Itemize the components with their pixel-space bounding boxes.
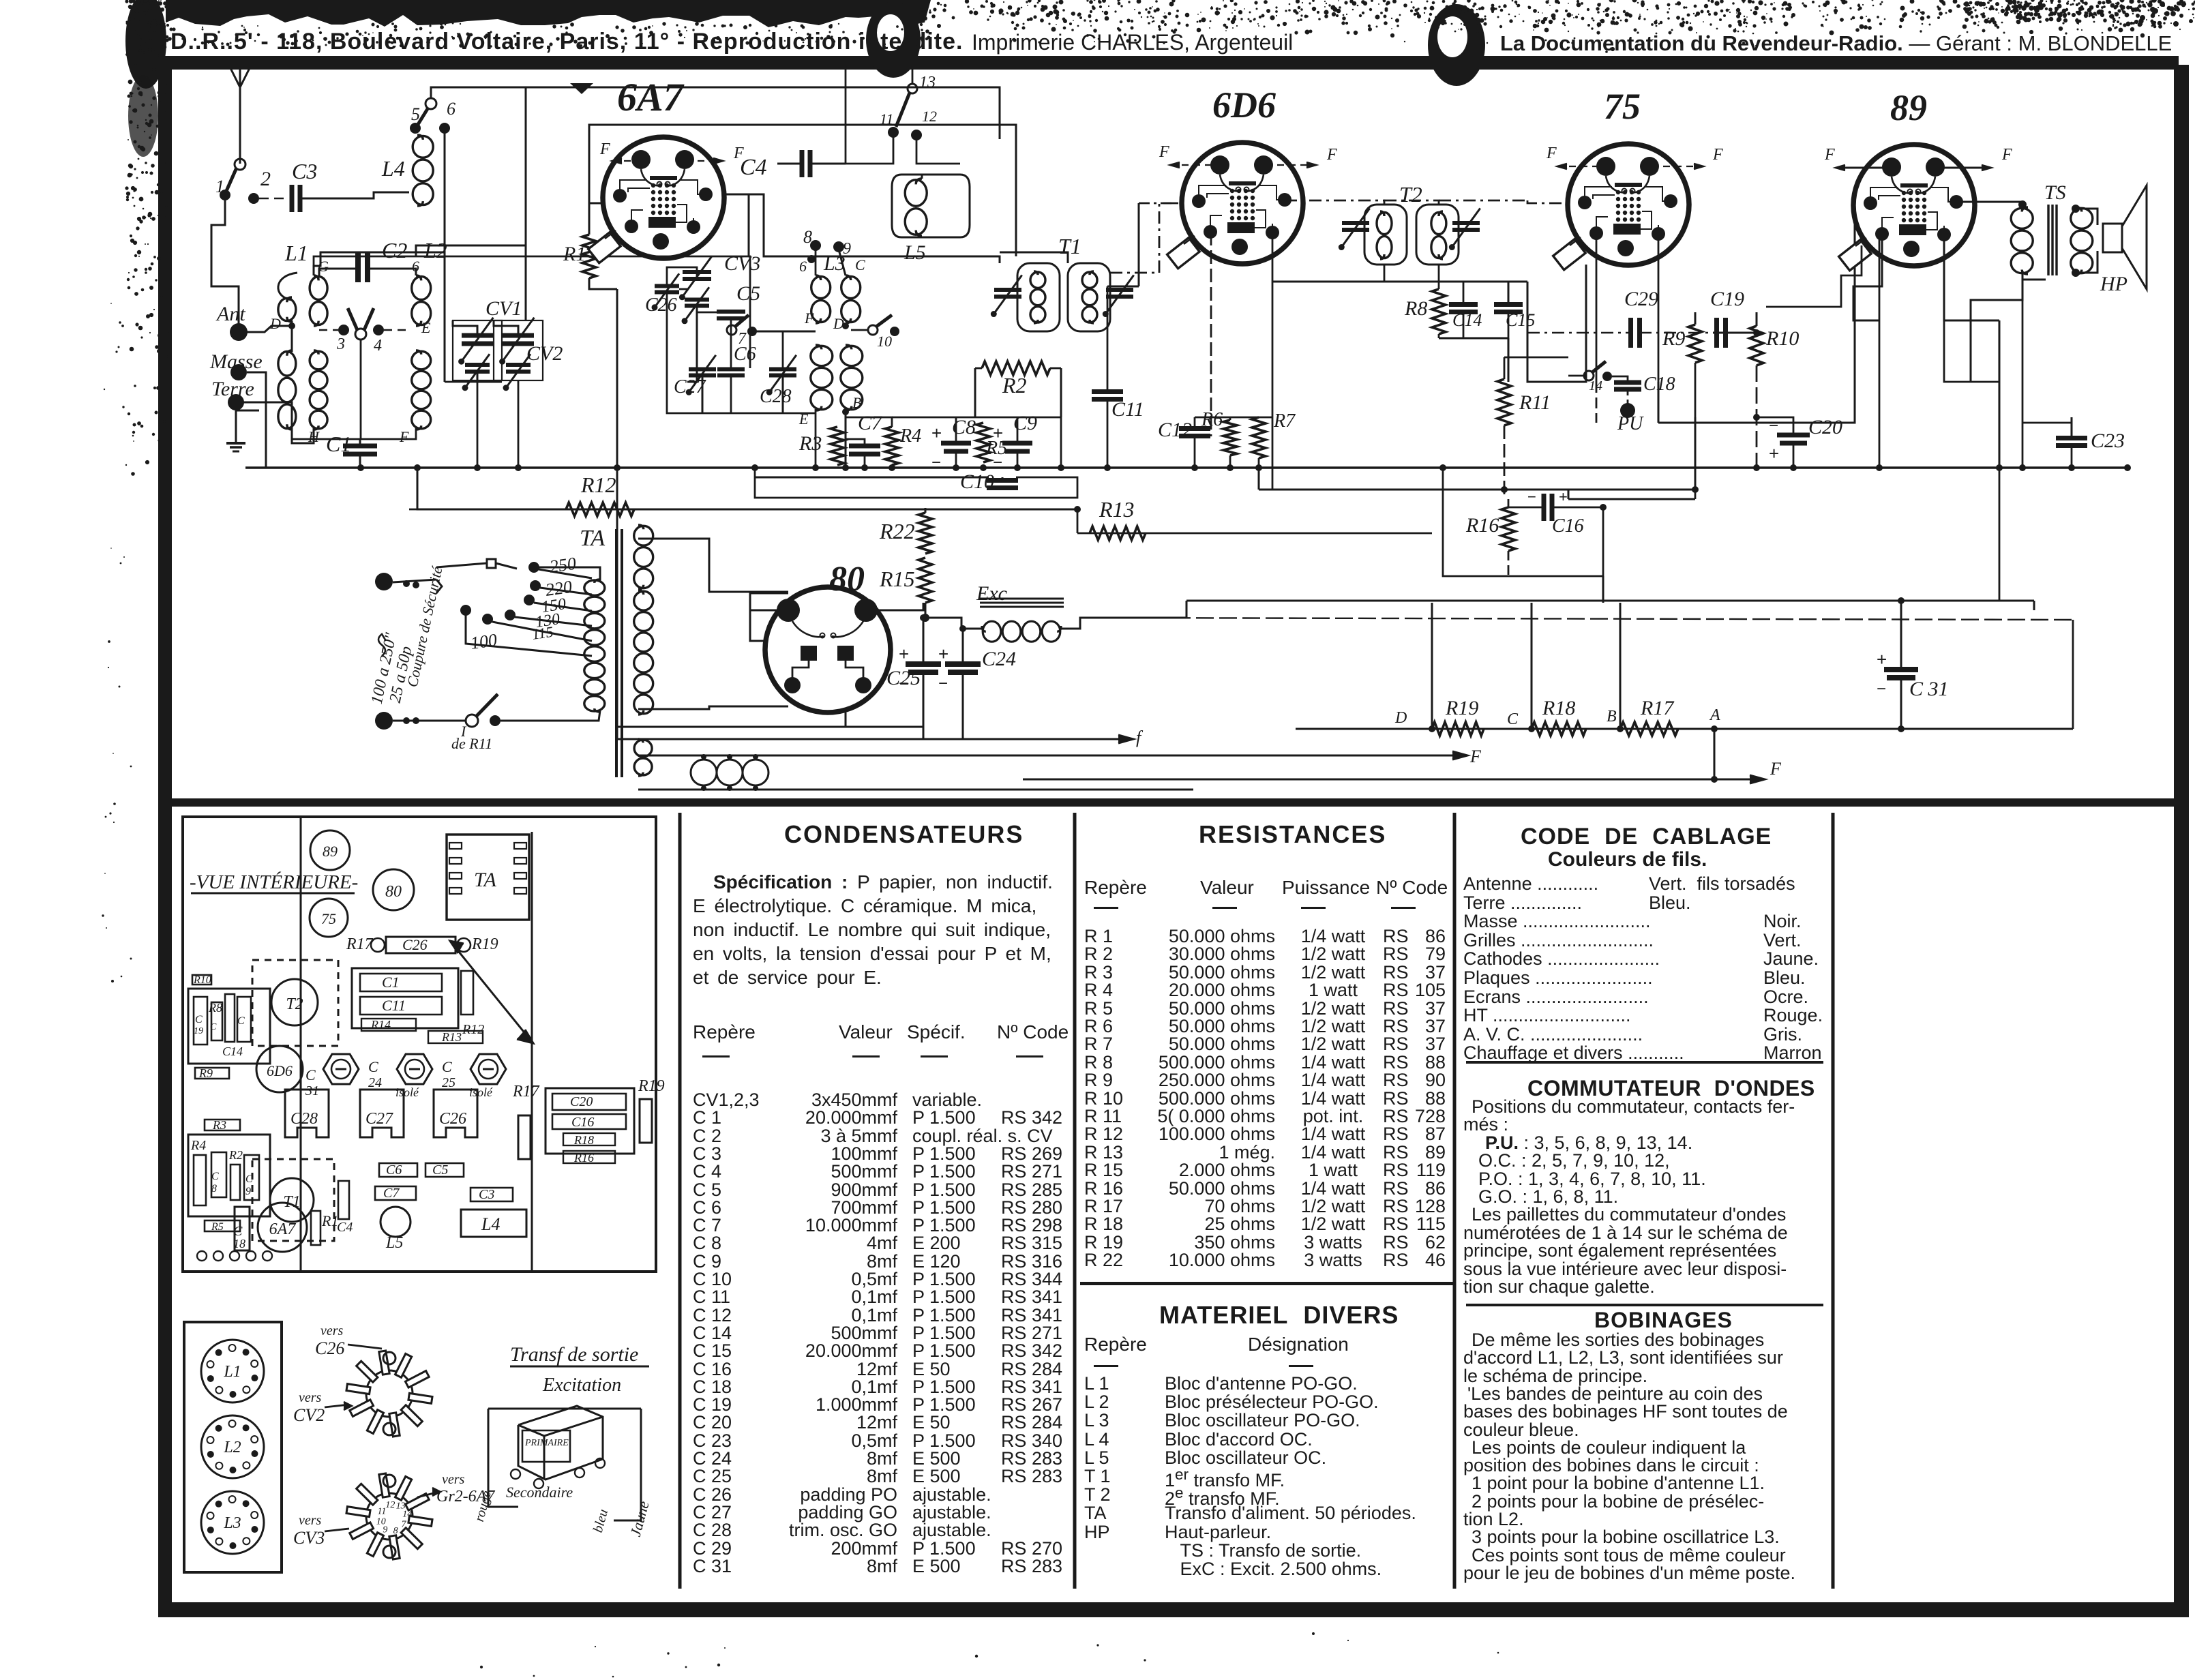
- pins 8-9: [810, 240, 821, 251]
- svg-text:L4: L4: [381, 156, 405, 181]
- svg-text:F: F: [399, 428, 409, 445]
- layout T2 dashed box: [252, 960, 338, 1046]
- transformer T2 primary: [1364, 205, 1407, 265]
- svg-text:R3: R3: [798, 432, 822, 455]
- wire R2 row: [982, 361, 1050, 375]
- svg-text:−: −: [899, 674, 908, 693]
- svg-text:bleu: bleu: [591, 1507, 611, 1534]
- rotary wafer CV2: [366, 1370, 413, 1417]
- antenna: [239, 87, 241, 164]
- tube 6A7: [603, 137, 724, 258]
- svg-text:C26: C26: [439, 1110, 466, 1128]
- svg-text:B: B: [852, 394, 861, 411]
- svg-text:C26: C26: [315, 1338, 344, 1358]
- switch contacts 11-12-13: [908, 84, 917, 93]
- transformer T2 secondary: [1416, 205, 1459, 265]
- wire 80 plates: [750, 593, 788, 641]
- wire terre to coil bottoms: [236, 402, 292, 428]
- svg-text:D: D: [269, 315, 281, 332]
- T1 primary trimmer: [994, 288, 1021, 292]
- svg-text:C20: C20: [570, 1094, 593, 1109]
- R13 wire: [1077, 532, 1432, 535]
- wire 89 grid from 75: [1814, 245, 1862, 307]
- svg-text:C3: C3: [292, 159, 317, 183]
- wire L2 top to CV: [416, 245, 526, 320]
- svg-text:C23: C23: [2091, 430, 2125, 452]
- svg-text:10: 10: [877, 333, 892, 350]
- svg-text:T2: T2: [286, 995, 303, 1013]
- TA bottom winding wires: [638, 755, 1466, 757]
- svg-text:F: F: [1824, 146, 1835, 164]
- table condensateurs: [784, 820, 1024, 849]
- wire 6A7 plate to T1: [724, 194, 1000, 263]
- svg-text:+: +: [931, 423, 942, 443]
- bus junction dots: [357, 464, 364, 471]
- layout bottom dots: [197, 1251, 207, 1261]
- svg-text:F: F: [1159, 143, 1169, 161]
- svg-text:R6: R6: [1201, 409, 1223, 430]
- mains selector contact: [487, 559, 496, 568]
- wire C3 to L4: [300, 192, 409, 198]
- wire 75 plate down: [1658, 235, 1660, 382]
- svg-text:+: +: [1769, 443, 1779, 464]
- tube circle 75: [310, 899, 348, 937]
- svg-text:C6: C6: [734, 344, 756, 365]
- svg-text:C1: C1: [382, 974, 400, 991]
- svg-text:vers: vers: [320, 1323, 344, 1338]
- svg-text:100: 100: [469, 630, 498, 653]
- long wire arrow f: [617, 738, 1132, 740]
- svg-text:R13: R13: [1099, 497, 1135, 522]
- svg-text:R19: R19: [471, 935, 498, 953]
- wire T2 bottom: [1384, 265, 1386, 282]
- svg-text:75: 75: [321, 910, 336, 927]
- svg-text:R18: R18: [573, 1133, 594, 1147]
- chassis layout box: [183, 817, 656, 1272]
- socket L3: [201, 1491, 264, 1554]
- wire 89 plate to TS: [1956, 202, 2022, 209]
- svg-text:R12: R12: [580, 472, 616, 497]
- svg-text:C7: C7: [858, 412, 883, 434]
- svg-text:C: C: [195, 1014, 203, 1025]
- svg-text:C16: C16: [571, 1115, 594, 1130]
- TA primary coil: [584, 580, 605, 595]
- svg-text:C4: C4: [337, 1220, 353, 1235]
- svg-text:R16: R16: [1465, 514, 1499, 537]
- svg-text:+: +: [993, 423, 1003, 443]
- wire L3 bottom to bus: [815, 409, 817, 468]
- svg-text:10: 10: [376, 1517, 386, 1527]
- svg-text:C19: C19: [1710, 288, 1744, 310]
- svg-text:C4: C4: [740, 155, 767, 180]
- wire T2 to 75 grid: [1527, 200, 1568, 203]
- switch contact 10: [868, 325, 878, 335]
- svg-text:R4: R4: [899, 425, 921, 447]
- winding terminals: [511, 1469, 520, 1479]
- svg-text:19: 19: [194, 1026, 203, 1036]
- wire node A arrow F: [1714, 729, 1763, 779]
- layout T1 dashed box: [252, 1159, 334, 1241]
- svg-text:C24: C24: [982, 648, 1016, 670]
- svg-text:L5: L5: [385, 1234, 403, 1252]
- wire 6A7 bottom to bus: [616, 289, 618, 468]
- scan noise band: [125, 0, 1485, 157]
- T2 primary trimmer: [1342, 221, 1369, 225]
- T2 secondary trimmer: [1452, 221, 1480, 225]
- wire CV bottoms to bus: [477, 380, 479, 468]
- border frame: [166, 56, 2179, 70]
- header left: publisher address: [170, 29, 963, 55]
- svg-text:L1: L1: [223, 1363, 241, 1381]
- svg-text:89: 89: [323, 843, 338, 860]
- wire ant switch to L1: [211, 200, 239, 332]
- wire top loop to 6A7 grid: [431, 87, 1000, 139]
- arrow to layout: [450, 941, 532, 1042]
- socket L1: [201, 1340, 264, 1402]
- svg-text:F: F: [599, 140, 610, 158]
- layout left column lower block: [205, 1120, 240, 1130]
- svg-text:R7: R7: [1273, 410, 1296, 432]
- wire grid-cap loop above 6A7: [589, 125, 1016, 256]
- svg-text:R10: R10: [1765, 327, 1799, 350]
- svg-text:31: 31: [305, 1083, 319, 1098]
- svg-text:6: 6: [447, 99, 456, 119]
- svg-text:+: +: [1559, 488, 1568, 505]
- svg-text:14: 14: [402, 1509, 412, 1519]
- power switch de R11: [466, 715, 478, 727]
- svg-text:C6: C6: [386, 1162, 402, 1177]
- svg-text:+: +: [1877, 649, 1887, 670]
- svg-text:vers: vers: [299, 1513, 322, 1528]
- svg-text:C5: C5: [432, 1162, 448, 1177]
- column divider 3: [1453, 813, 1457, 1589]
- svg-text:7: 7: [402, 1520, 407, 1530]
- wire bus vertical 1846: [1259, 417, 1695, 490]
- svg-text:8: 8: [393, 1526, 398, 1536]
- svg-text:9: 9: [843, 240, 851, 258]
- transfo TA box: [447, 835, 529, 920]
- column divider 2: [1073, 813, 1077, 1589]
- table resistances: [1199, 820, 1386, 849]
- transformer TS: [2011, 208, 2033, 228]
- svg-text:F: F: [1546, 145, 1557, 162]
- layout left column upper block: [192, 975, 211, 985]
- svg-text:C: C: [211, 1171, 219, 1182]
- svg-text:C26: C26: [402, 936, 428, 953]
- svg-text:80: 80: [385, 883, 402, 901]
- svg-text:C: C: [237, 1015, 245, 1027]
- svg-text:R16: R16: [573, 1151, 594, 1165]
- svg-text:C: C: [855, 256, 865, 273]
- svg-text:T1: T1: [1058, 234, 1081, 258]
- tube circle 89: [310, 830, 350, 870]
- svg-text:11: 11: [880, 110, 893, 127]
- wire 80 filament to R22/R15: [866, 603, 923, 610]
- wire vertical 771: [525, 87, 527, 320]
- svg-text:PU: PU: [1617, 413, 1644, 434]
- tube 80: [765, 587, 891, 712]
- svg-text:R3: R3: [212, 1118, 226, 1132]
- svg-text:CV3: CV3: [293, 1528, 325, 1548]
- table code de cablage: [1521, 824, 1772, 850]
- ground symbol: [235, 410, 237, 442]
- switch contact 14 and C18: [1584, 371, 1594, 380]
- svg-text:−: −: [993, 453, 1002, 472]
- svg-text:2: 2: [260, 168, 271, 190]
- svg-text:D: D: [833, 315, 844, 332]
- svg-text:R2: R2: [228, 1148, 243, 1162]
- socket box: [184, 1322, 282, 1572]
- AVC line right: [1080, 618, 2073, 620]
- svg-text:C11: C11: [382, 997, 406, 1014]
- wire T1 to 6D6: [1110, 203, 1180, 273]
- fuse arrows: [436, 580, 442, 593]
- main bus wire: [245, 466, 2127, 468]
- svg-text:C20: C20: [1808, 416, 1842, 438]
- switch contact 1-2: [226, 168, 237, 191]
- svg-text:Ant: Ant: [215, 303, 245, 325]
- svg-text:R5: R5: [211, 1221, 224, 1233]
- output resistor chain wire: [1296, 728, 2073, 730]
- svg-text:R1: R1: [321, 1212, 338, 1229]
- svg-text:18: 18: [233, 1237, 245, 1250]
- svg-text:R8: R8: [208, 1001, 222, 1015]
- svg-text:C2: C2: [382, 238, 407, 262]
- wire bus to R16: [1259, 489, 1504, 491]
- svg-text:−: −: [938, 674, 948, 693]
- svg-text:B: B: [1607, 708, 1617, 725]
- svg-text:−: −: [931, 453, 941, 472]
- svg-text:HP: HP: [2100, 273, 2127, 295]
- svg-text:Jaune: Jaune: [627, 1499, 653, 1538]
- svg-text:C: C: [305, 1066, 316, 1083]
- svg-text:6A7: 6A7: [269, 1220, 297, 1238]
- TA core: [615, 529, 618, 777]
- svg-text:R17: R17: [512, 1083, 540, 1100]
- coil junction bottom wires: [292, 428, 416, 439]
- schematic-table divider: [170, 798, 2175, 807]
- svg-text:de R11: de R11: [451, 735, 492, 752]
- wire 75 plate to 89 grid: [1658, 205, 1855, 423]
- tube 75: [1568, 144, 1689, 265]
- svg-text:5: 5: [411, 104, 420, 124]
- svg-text:12: 12: [385, 1500, 395, 1510]
- node D: [288, 322, 295, 329]
- terminal mains bottom: [375, 712, 393, 730]
- svg-text:3: 3: [336, 335, 345, 353]
- svg-text:C3: C3: [479, 1187, 494, 1202]
- header center: printer: [972, 30, 1293, 55]
- svg-text:R4: R4: [190, 1138, 206, 1153]
- svg-text:C: C: [442, 1058, 452, 1075]
- B+ line right: [1186, 600, 2034, 602]
- svg-text:isolé: isolé: [395, 1085, 419, 1099]
- svg-text:L1: L1: [284, 241, 308, 265]
- svg-text:C: C: [1507, 710, 1519, 728]
- svg-text:9: 9: [245, 1186, 251, 1197]
- svg-text:-VUE INTÉRIEURE-: -VUE INTÉRIEURE-: [190, 871, 358, 893]
- svg-text:C: C: [368, 1058, 378, 1075]
- svg-text:E: E: [421, 319, 431, 336]
- svg-text:C14: C14: [222, 1045, 243, 1058]
- svg-text:8: 8: [211, 1183, 217, 1195]
- layout C3 L4: [471, 1188, 513, 1201]
- svg-text:R2: R2: [1002, 373, 1027, 397]
- wire 80 output lines: [709, 726, 923, 728]
- wire 6D6 plate to T2: [1285, 200, 1384, 205]
- svg-text:R18: R18: [1542, 697, 1575, 719]
- svg-text:T2: T2: [1399, 182, 1422, 207]
- svg-text:Exc: Exc: [976, 582, 1007, 605]
- svg-text:−: −: [1527, 488, 1536, 505]
- svg-text:R9: R9: [198, 1066, 213, 1080]
- svg-text:PRIMAIRE: PRIMAIRE: [524, 1438, 569, 1448]
- wire L1-L2 top frame: [314, 252, 445, 275]
- svg-text:TA: TA: [580, 526, 605, 551]
- svg-text:TA: TA: [474, 869, 496, 891]
- coil L1 secondary G-H: [310, 277, 327, 300]
- svg-text:L3: L3: [223, 1514, 241, 1532]
- svg-text:R17: R17: [346, 935, 374, 953]
- svg-text:R19: R19: [1445, 697, 1478, 719]
- svg-text:C28: C28: [290, 1110, 318, 1128]
- svg-text:24: 24: [368, 1075, 382, 1090]
- svg-text:12: 12: [922, 108, 937, 125]
- svg-text:R15: R15: [879, 567, 915, 591]
- svg-text:6D6: 6D6: [1212, 85, 1276, 125]
- svg-text:14: 14: [1589, 378, 1602, 393]
- svg-text:CV2: CV2: [293, 1405, 325, 1425]
- svg-text:CV1: CV1: [486, 297, 522, 320]
- svg-text:CV3: CV3: [724, 252, 760, 275]
- svg-text:−: −: [1769, 417, 1778, 435]
- wire 13 up: [846, 65, 912, 164]
- svg-text:C: C: [245, 1173, 253, 1185]
- tube 89: [1853, 145, 1975, 266]
- rotary wafer CV3: [366, 1493, 413, 1540]
- svg-text:8: 8: [803, 227, 812, 247]
- wire 75 stage frame: [1602, 576, 1604, 603]
- wire switch3 to C1: [360, 340, 362, 439]
- TA 4V winding: [634, 740, 652, 757]
- svg-text:F: F: [1770, 759, 1782, 779]
- tube 6D6: [1182, 142, 1303, 264]
- wire 11/12 to L5/T1: [846, 135, 893, 164]
- svg-text:L2: L2: [223, 1439, 241, 1456]
- svg-text:6D6: 6D6: [267, 1062, 293, 1079]
- tube circle 80: [373, 869, 414, 910]
- svg-text:F: F: [2001, 146, 2012, 164]
- terminal PU: [1620, 403, 1635, 418]
- layout C6 C5 row: [379, 1163, 417, 1177]
- svg-text:D: D: [1394, 709, 1407, 727]
- wire node2 to C3: [259, 198, 286, 200]
- column divider 4: [1832, 813, 1835, 1589]
- svg-text:4: 4: [374, 337, 382, 355]
- svg-text:F: F: [804, 310, 814, 327]
- output transformer sketch: [518, 1406, 603, 1480]
- svg-text:R19: R19: [638, 1077, 665, 1095]
- transformer T1 secondary: [1068, 263, 1110, 331]
- wire masse down-bus: [247, 372, 464, 468]
- svg-text:C27: C27: [365, 1110, 393, 1128]
- svg-text:C5: C5: [736, 282, 760, 305]
- svg-text:R11: R11: [1519, 391, 1551, 414]
- wire osc caps frame: [687, 305, 697, 382]
- svg-text:C 31: C 31: [1909, 678, 1949, 700]
- layout 6A7 C18 R1: [235, 1207, 250, 1250]
- layout C1 C11 box: [352, 968, 458, 1028]
- svg-text:13: 13: [919, 74, 936, 91]
- svg-text:C28: C28: [760, 386, 792, 407]
- svg-text:F: F: [1326, 146, 1337, 164]
- svg-text:isolé: isolé: [469, 1085, 493, 1099]
- svg-text:R22: R22: [879, 519, 915, 543]
- wire 6 down to L2: [444, 131, 446, 382]
- svg-text:+: +: [938, 644, 949, 664]
- svg-text:R14: R14: [370, 1018, 391, 1032]
- svg-text:TS: TS: [2044, 181, 2066, 204]
- svg-text:R13: R13: [441, 1030, 462, 1044]
- wire TS secondary to HP: [2076, 209, 2097, 225]
- switch contact 7: [727, 325, 736, 335]
- T1 secondary trimmer: [1106, 288, 1133, 292]
- svg-text:25: 25: [442, 1075, 456, 1090]
- wire 6D6 left grid: [1139, 202, 1180, 205]
- R12 wire: [417, 468, 1077, 509]
- svg-text:6: 6: [799, 258, 807, 275]
- wire left vertical drops: [1431, 603, 1433, 729]
- TA secondary HT winding: [634, 526, 653, 545]
- wire TS primary bottom: [1971, 273, 2022, 382]
- svg-text:F: F: [1469, 747, 1482, 766]
- svg-text:L5: L5: [904, 241, 926, 264]
- layout C28 C27 C26 row: [285, 1090, 329, 1137]
- svg-text:C16: C16: [1552, 515, 1584, 537]
- svg-text:C: C: [210, 1022, 217, 1032]
- wire 89 screen: [1944, 235, 1999, 320]
- svg-text:6A7: 6A7: [617, 75, 685, 119]
- svg-text:L4: L4: [481, 1214, 500, 1234]
- wire 75 cathode frame: [1527, 265, 1586, 382]
- svg-text:R17: R17: [1640, 697, 1675, 719]
- socket L2: [201, 1415, 264, 1478]
- svg-text:89: 89: [1890, 87, 1927, 128]
- svg-text:−: −: [1877, 680, 1886, 698]
- svg-text:R12: R12: [462, 1022, 484, 1037]
- svg-text:Secondaire: Secondaire: [506, 1484, 573, 1501]
- svg-text:vers: vers: [442, 1472, 465, 1487]
- transformer T1 primary: [1017, 263, 1060, 331]
- wire 6D6 cathode down: [1210, 232, 1212, 436]
- layout 6D6 and knobs: [256, 1046, 303, 1092]
- wire 89 cathode down: [1853, 235, 1882, 320]
- layout C7 L5: [375, 1186, 416, 1200]
- svg-text:C29: C29: [1624, 288, 1658, 310]
- svg-text:vers: vers: [299, 1390, 322, 1405]
- terminal mains top: [375, 573, 393, 590]
- switch contacts 5-6: [410, 123, 421, 134]
- svg-text:R9: R9: [1662, 327, 1685, 350]
- svg-text:+: +: [899, 644, 909, 664]
- svg-text:C7: C7: [383, 1186, 400, 1201]
- filament circles: [691, 760, 717, 785]
- svg-text:Transf de sortie: Transf de sortie: [510, 1343, 638, 1366]
- svg-text:R10: R10: [193, 974, 211, 986]
- band switch contacts 3-4: [338, 325, 349, 335]
- header right: publication title: [1500, 31, 2172, 56]
- wire detector row 488: [1527, 332, 1631, 333]
